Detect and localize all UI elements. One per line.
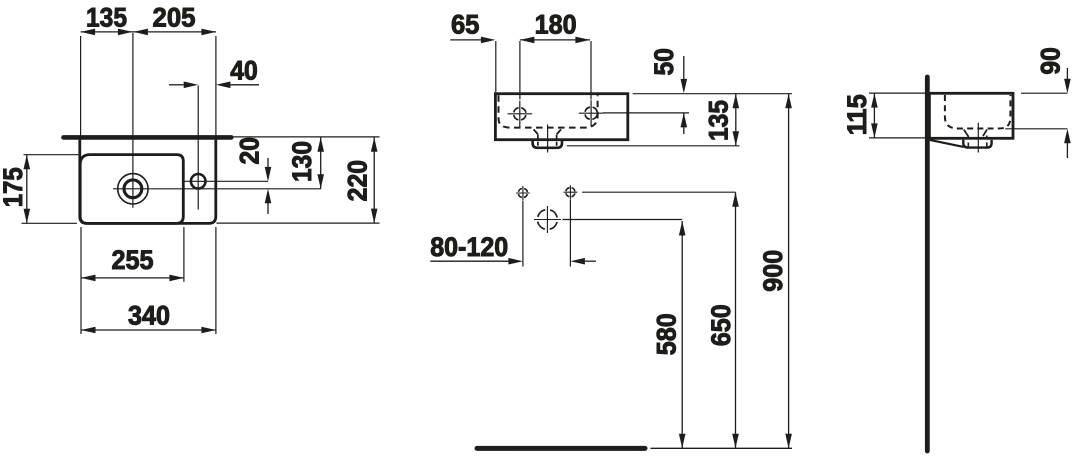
- tap hole vertical centerline plan: [197, 86, 199, 210]
- extension line basin bottom right plan: [216, 222, 379, 224]
- extension lines above front view: [496, 41, 591, 100]
- sloped underside line side: [930, 140, 964, 147]
- floor line thin extension: [651, 447, 793, 449]
- mounting holes reference line to 650 dim: [582, 191, 735, 193]
- svg-text:900: 900: [758, 250, 788, 292]
- svg-text:205: 205: [153, 3, 196, 33]
- drain funnel dashes side: [964, 130, 987, 137]
- dimension 20 plan right: [235, 137, 272, 214]
- wall line side view (thick vertical): [925, 77, 930, 451]
- svg-text:20: 20: [235, 137, 265, 165]
- svg-text:50: 50: [649, 48, 679, 76]
- dimension 220 plan far right: [343, 137, 378, 223]
- basin front inner dashed outline: [499, 95, 598, 127]
- siphon hole circle (dash-dot): [534, 206, 561, 233]
- svg-text:90: 90: [1035, 47, 1065, 75]
- wall line (thick) plan view: [64, 135, 232, 140]
- svg-text:340: 340: [128, 300, 170, 330]
- floor line thick: [477, 446, 645, 451]
- basin side inner dashed outline: [945, 95, 1011, 129]
- drain funnel dashes front: [534, 129, 561, 134]
- dimension 650: [706, 192, 739, 448]
- dimension 580: [652, 221, 686, 448]
- tap hole left front (dashed circle with cross): [508, 101, 533, 127]
- basin front outline: [495, 94, 627, 140]
- tap hole reference line to 50 dim: [603, 112, 689, 114]
- dimension 180 front top: [520, 9, 590, 43]
- svg-text:135: 135: [704, 100, 734, 141]
- dimension 80-120: [430, 200, 596, 267]
- svg-text:130: 130: [287, 141, 317, 182]
- dimension 65 front top: [450, 9, 495, 43]
- dimension 135 front right: [704, 94, 740, 146]
- svg-text:580: 580: [652, 313, 682, 355]
- mounting hole left: [516, 186, 530, 200]
- svg-text:135: 135: [86, 3, 127, 33]
- drain box front: [533, 140, 562, 148]
- dimension 50 front: [649, 48, 687, 134]
- mounting hole right: [564, 185, 578, 199]
- svg-text:115: 115: [842, 94, 872, 135]
- svg-text:65: 65: [451, 9, 480, 39]
- extension line wall top right plan: [233, 136, 380, 138]
- dimension 40 plan: [169, 56, 259, 89]
- tap hole circle plan: [191, 174, 206, 189]
- svg-text:255: 255: [112, 245, 154, 275]
- extension line basin top right side: [1021, 92, 1067, 94]
- drain centerline side: [977, 123, 979, 153]
- dimension 255 plan bottom: [81, 227, 184, 334]
- extension line bowl bottom right side: [1005, 128, 1067, 130]
- tap hole horizontal centerline to 20 dim: [185, 180, 269, 182]
- dimension 175 plan left: [0, 155, 79, 224]
- dimension 205 plan top: [133, 3, 216, 137]
- dimension 900: [758, 94, 792, 449]
- drain outer circle plan: [118, 174, 148, 204]
- basin outer outline plan: [80, 138, 216, 224]
- svg-text:80-120: 80-120: [430, 232, 508, 262]
- svg-text:220: 220: [343, 160, 373, 202]
- drain horizontal centerline to 130 dim: [113, 188, 321, 190]
- drain box side: [963, 140, 991, 148]
- drain inner circle plan: [124, 180, 142, 198]
- dimension 340 plan bottom: [81, 227, 216, 334]
- extension line basin top right front: [633, 93, 792, 95]
- svg-text:40: 40: [230, 56, 258, 86]
- drain vertical centerline / extension for 135-205: [132, 33, 134, 208]
- dimension 135 plan top: [81, 3, 216, 137]
- drain centerline front: [547, 125, 549, 153]
- tap hole right front (dashed circle with cross): [579, 100, 604, 126]
- svg-text:180: 180: [535, 9, 577, 39]
- svg-text:650: 650: [706, 304, 736, 346]
- basin side outline: [929, 93, 1013, 138]
- drain box dashed pipes side: [968, 136, 987, 147]
- dimension 130 plan right: [287, 137, 324, 189]
- basin inner bowl outline plan: [80, 155, 183, 224]
- dimension 115 side left: [842, 93, 925, 138]
- siphon hole reference line to 580 dim: [562, 219, 682, 221]
- extension line drain box bottom front: [567, 145, 740, 147]
- svg-text:175: 175: [0, 167, 28, 207]
- drain box dashed pipes front: [538, 135, 557, 147]
- dimension 90 side right: [1035, 47, 1070, 158]
